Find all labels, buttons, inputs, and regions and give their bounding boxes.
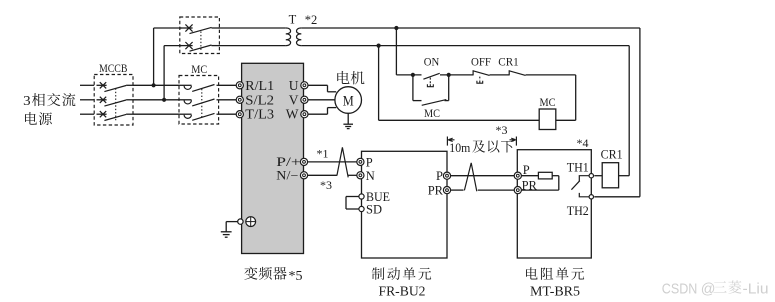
svg-text:FR-BU2: FR-BU2 [379, 284, 426, 299]
svg-text:SD: SD [366, 203, 382, 217]
svg-text:TH1: TH1 [567, 160, 589, 174]
svg-text:N: N [366, 169, 375, 183]
svg-text:3: 3 [23, 94, 31, 109]
svg-text:*3: *3 [320, 178, 332, 192]
svg-text:TH2: TH2 [567, 204, 589, 218]
svg-text:P: P [523, 163, 530, 177]
svg-text:W: W [286, 107, 299, 122]
svg-text:N/−: N/− [276, 169, 298, 183]
svg-text:P: P [436, 169, 443, 183]
svg-text:U: U [289, 78, 299, 93]
svg-text:*1: *1 [317, 147, 329, 161]
svg-text:T: T [289, 12, 297, 26]
svg-text:OFF: OFF [471, 54, 491, 68]
svg-text:*5: *5 [289, 269, 303, 284]
svg-text:-Liu: -Liu [743, 282, 769, 298]
svg-text:CSDN: CSDN [662, 282, 698, 298]
svg-text:*4: *4 [577, 136, 589, 150]
svg-text:MT-BR5: MT-BR5 [530, 284, 580, 299]
svg-text:M: M [343, 94, 354, 110]
svg-text:PR: PR [428, 184, 444, 198]
svg-text:T/L3: T/L3 [245, 107, 274, 122]
svg-text:CR1: CR1 [601, 148, 623, 162]
svg-text:*2: *2 [305, 13, 318, 27]
svg-text:R/L1: R/L1 [245, 78, 274, 93]
svg-text:ON: ON [424, 54, 440, 68]
svg-text:S/L2: S/L2 [245, 92, 274, 107]
svg-text:MCCB: MCCB [99, 61, 128, 75]
svg-text:P: P [366, 155, 373, 169]
svg-text:10m: 10m [449, 140, 470, 155]
svg-text:@: @ [701, 282, 716, 298]
svg-text:MC: MC [424, 106, 440, 120]
svg-text:*3: *3 [496, 123, 508, 137]
svg-text:MC: MC [540, 95, 556, 109]
svg-text:P/+: P/+ [276, 155, 301, 169]
svg-text:V: V [289, 92, 299, 107]
svg-text:CR1: CR1 [498, 54, 519, 68]
svg-text:MC: MC [191, 62, 207, 76]
